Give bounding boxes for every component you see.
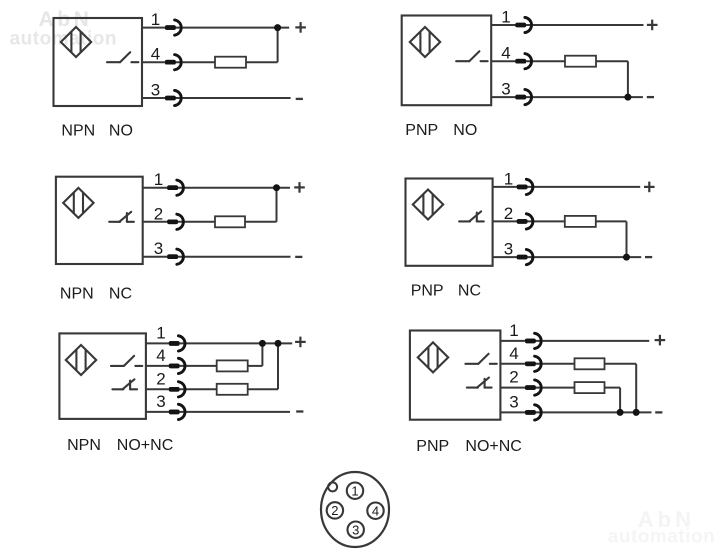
svg-text:4: 4 [151,45,160,64]
svg-text:NO: NO [453,122,477,139]
svg-text:4: 4 [501,44,510,63]
svg-text:NPN: NPN [61,123,95,140]
svg-text:NO+NC: NO+NC [117,437,173,454]
svg-text:3: 3 [501,80,510,99]
svg-text:PNP: PNP [411,283,444,300]
svg-text:2: 2 [331,503,338,518]
svg-text:3: 3 [151,81,160,100]
svg-text:4: 4 [156,346,165,365]
svg-text:2: 2 [504,204,513,223]
svg-text:3: 3 [154,239,163,258]
svg-text:1: 1 [154,170,163,189]
svg-text:2: 2 [156,369,165,388]
svg-text:2: 2 [509,368,518,387]
svg-text:1: 1 [151,10,160,29]
svg-text:1: 1 [501,8,510,27]
svg-text:automation: automation [608,527,715,548]
svg-text:4: 4 [509,344,518,363]
svg-text:4: 4 [372,503,379,518]
svg-text:2: 2 [154,204,163,223]
svg-text:NO+NC: NO+NC [465,438,521,455]
svg-text:1: 1 [351,483,358,498]
svg-text:1: 1 [504,169,513,188]
svg-text:1: 1 [509,321,518,340]
svg-text:PNP: PNP [416,438,449,455]
svg-text:PNP: PNP [405,122,438,139]
svg-text:NPN: NPN [67,437,101,454]
svg-text:3: 3 [156,392,165,411]
svg-text:NC: NC [458,283,481,300]
svg-text:NPN: NPN [60,286,94,303]
svg-text:3: 3 [504,240,513,259]
svg-text:3: 3 [509,392,518,411]
svg-text:NO: NO [109,123,133,140]
svg-text:NC: NC [109,286,132,303]
svg-text:1: 1 [156,323,165,342]
svg-text:3: 3 [352,522,359,537]
